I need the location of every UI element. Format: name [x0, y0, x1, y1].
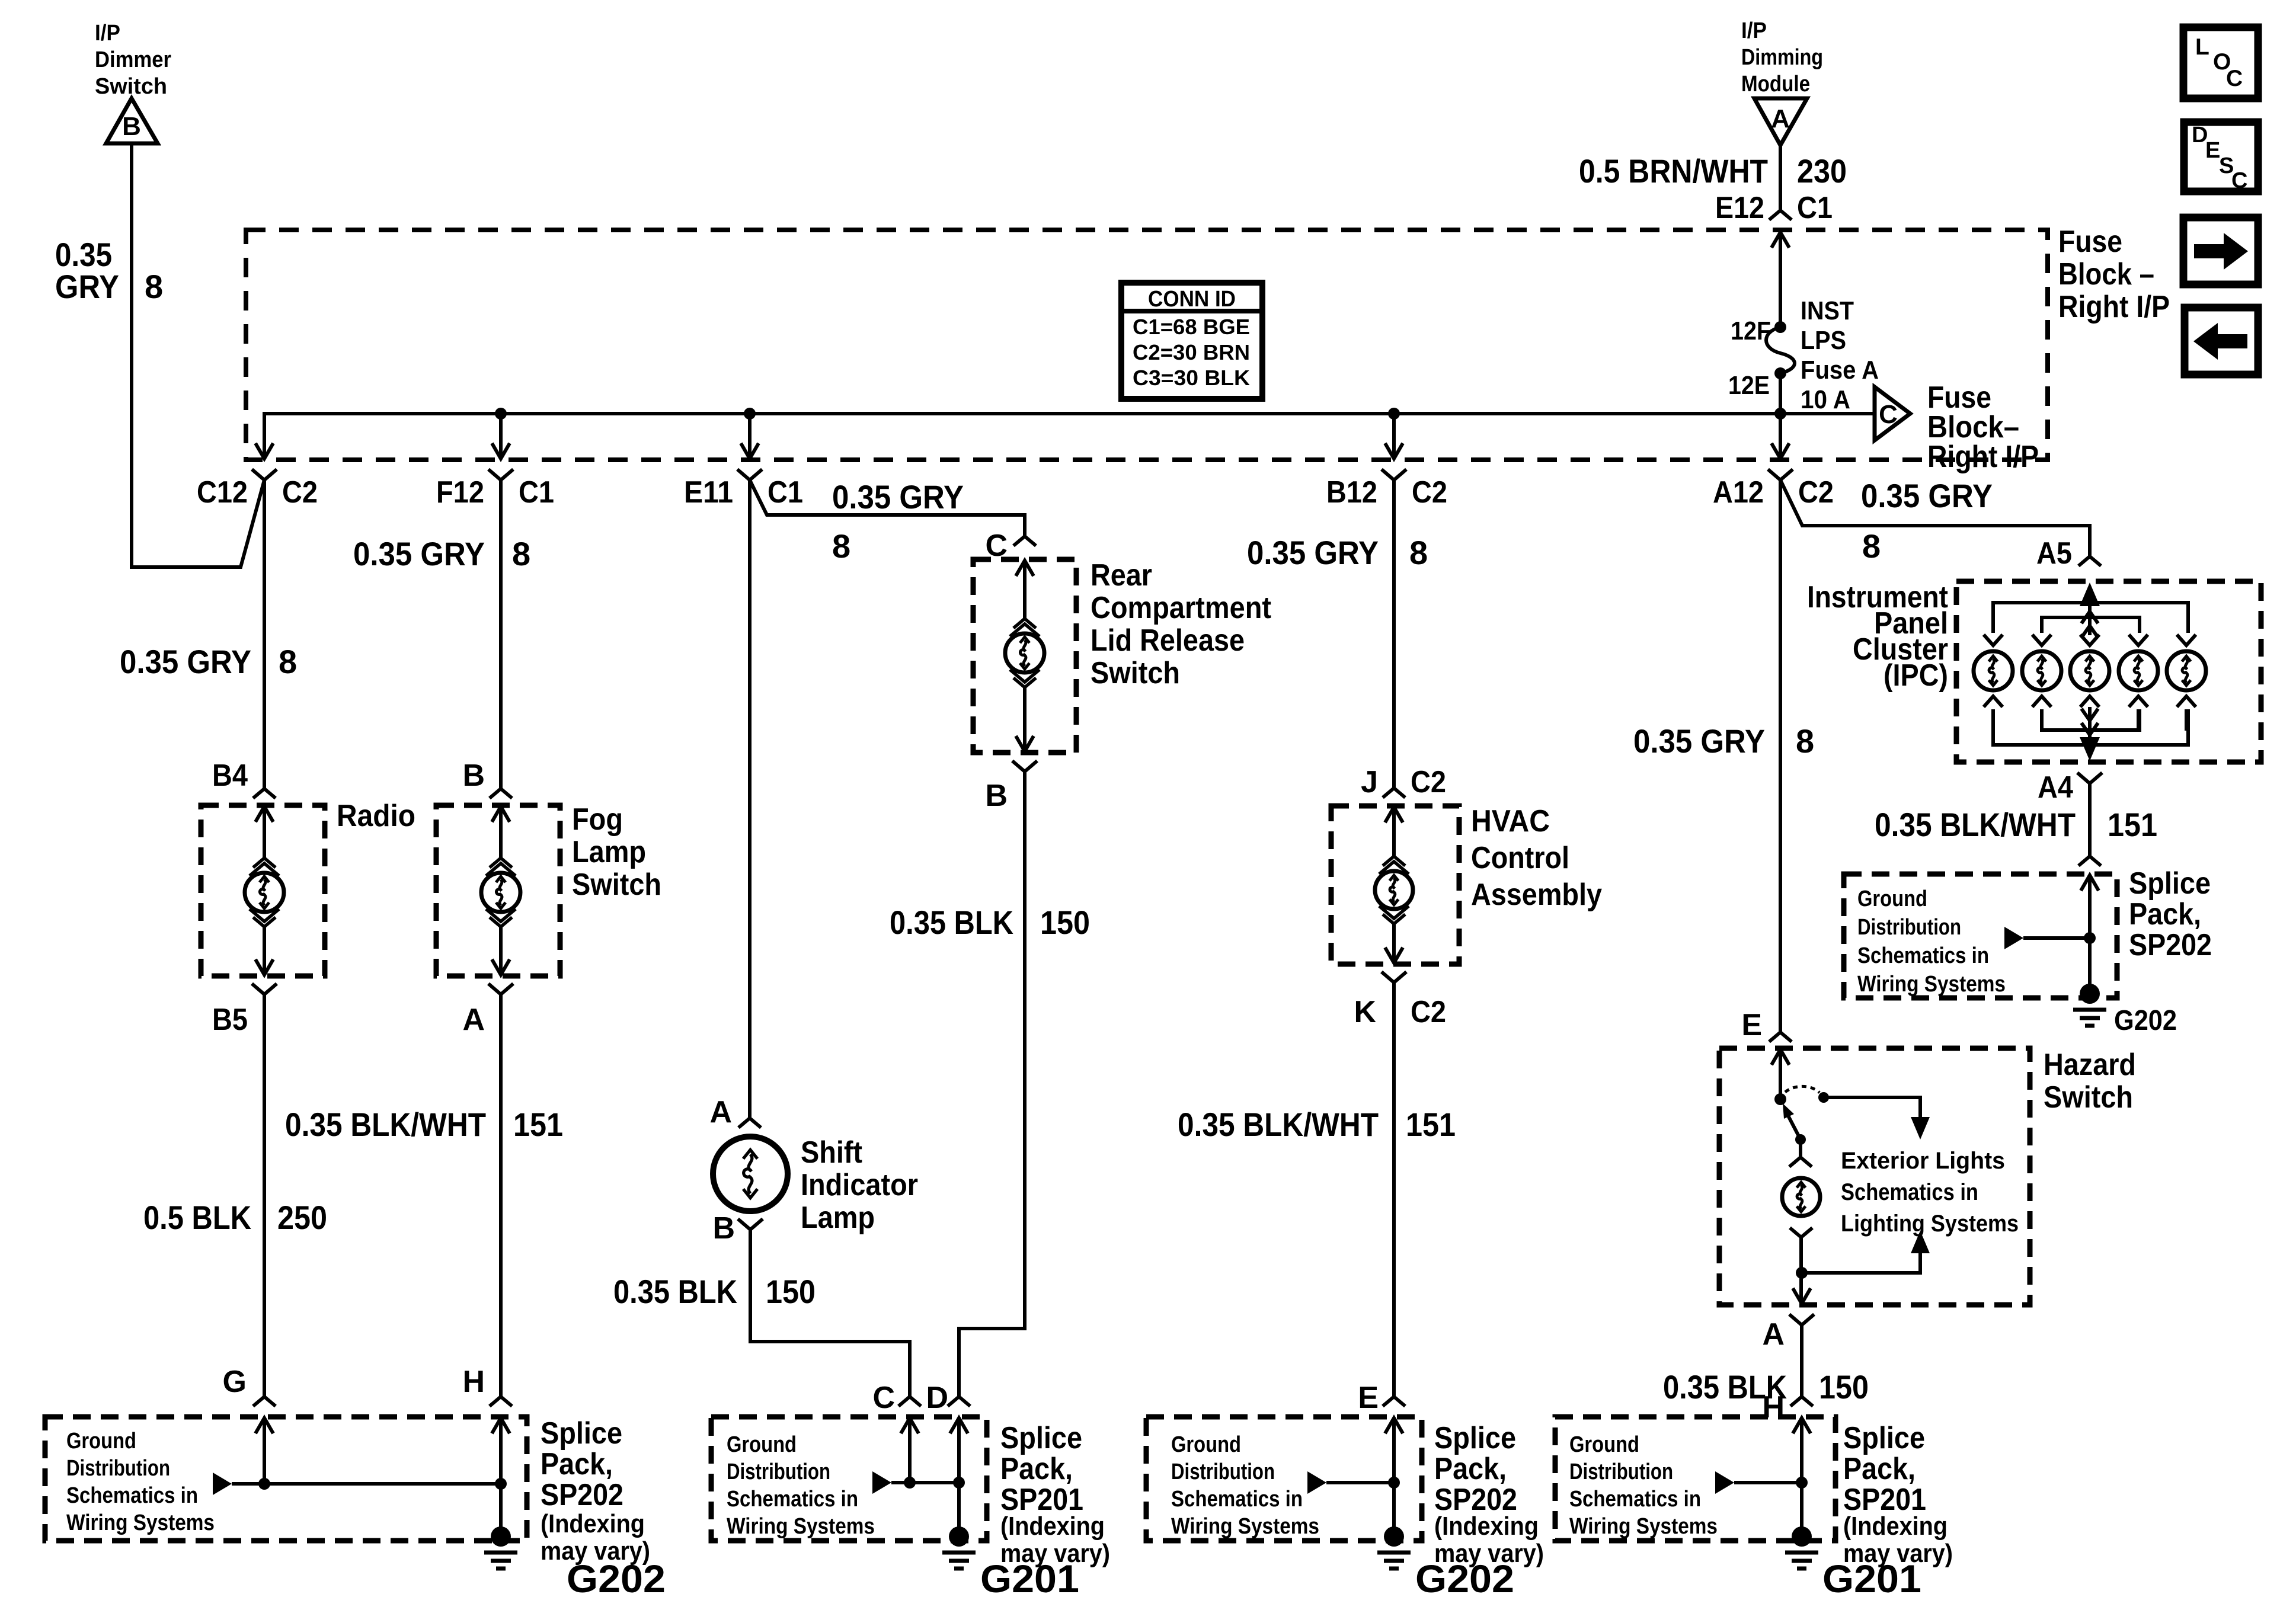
- fuse block dashed border (Fuse Block - Right I/P): [246, 230, 2048, 460]
- svg-text:E11: E11: [684, 475, 733, 510]
- svg-text:8: 8: [279, 643, 297, 680]
- svg-text:Fuse: Fuse: [2058, 225, 2122, 259]
- IPC top inner rail: [2042, 617, 2140, 633]
- connector chevron A4: [2077, 773, 2102, 783]
- label B (rear lid): [985, 779, 1008, 813]
- connector chevron C (splice SP201): [898, 1397, 921, 1406]
- connector E11 of C1 (fuse block exit to shift lamp chain): [684, 443, 803, 510]
- svg-text:(Indexing: (Indexing: [541, 1509, 645, 1538]
- svg-text:C: C: [1879, 400, 1898, 429]
- IPC lamp 2 bottom chevron: [2032, 696, 2051, 707]
- connector B12 of C2 (fuse block exit to HVAC chain): [1326, 443, 1447, 510]
- svg-text:B: B: [122, 112, 141, 141]
- svg-text:151: 151: [513, 1106, 563, 1143]
- wire rear lid B down to splice D: [959, 772, 1025, 1397]
- svg-text:0.35 BLK/WHT: 0.35 BLK/WHT: [1178, 1106, 1379, 1143]
- label 12E: [1728, 371, 1770, 400]
- wire C12 to radio B4: [263, 480, 266, 789]
- splice box 2 feed triangle: [872, 1471, 891, 1494]
- svg-text:Shift: Shift: [801, 1135, 862, 1170]
- svg-text:CONN ID: CONN ID: [1148, 287, 1236, 312]
- connector chevron G: [253, 1397, 276, 1406]
- IPC top outer rail: [1993, 603, 2188, 633]
- connector chevron B4: [253, 789, 276, 798]
- ground G202 (box 3): [1377, 1526, 1411, 1569]
- svg-text:(Indexing: (Indexing: [1434, 1512, 1539, 1541]
- svg-text:Ground: Ground: [1171, 1432, 1241, 1457]
- connector chevron E (hazard): [1769, 1032, 1792, 1042]
- label 0.35 GRY 8 (dimmer wire): [55, 236, 163, 305]
- IPC collect bold arrow down with barbs: [2080, 707, 2100, 761]
- svg-text:150: 150: [766, 1273, 816, 1310]
- radio lamp bottom connector pair: [250, 909, 279, 927]
- hazard junction dot: [1796, 1267, 1808, 1279]
- ground G202 (box 1): [484, 1526, 517, 1569]
- svg-text:Pack,: Pack,: [541, 1447, 613, 1481]
- off-page connector triangle B (I/P Dimmer Switch): [106, 98, 158, 143]
- connector chevron B5: [252, 984, 277, 994]
- label Splice Pack SP202 (box 3): [1434, 1421, 1544, 1568]
- wire hazard lamp down: [1799, 1237, 1803, 1304]
- wire I/P dimmer switch B down and splice to C12: [132, 143, 264, 567]
- drop wire B12: [1392, 414, 1396, 457]
- svg-text:Assembly: Assembly: [1471, 878, 1602, 912]
- svg-text:Wiring Systems: Wiring Systems: [727, 1514, 875, 1539]
- svg-text:Schematics in: Schematics in: [1857, 943, 1989, 968]
- svg-text:0.35 GRY: 0.35 GRY: [1247, 534, 1379, 571]
- hazard lamp bottom chevron: [1790, 1228, 1812, 1237]
- label Splice Pack SP202 (box 1): [541, 1416, 650, 1566]
- label A (fog): [462, 1003, 485, 1037]
- IPC illumination lamp 2: [2022, 651, 2061, 690]
- svg-text:Right I/P: Right I/P: [1927, 440, 2039, 474]
- svg-text:E: E: [1358, 1381, 1379, 1415]
- svg-text:C: C: [872, 1381, 895, 1415]
- svg-text:Lighting Systems: Lighting Systems: [1841, 1211, 2019, 1237]
- connector chevron B (shift lamp): [738, 1219, 763, 1230]
- svg-text:Switch: Switch: [2044, 1080, 2133, 1115]
- svg-text:A: A: [709, 1095, 732, 1129]
- svg-text:A12: A12: [1713, 475, 1764, 510]
- off-page connector triangle A (I/P Dimming Module): [1754, 98, 1807, 145]
- svg-text:C2: C2: [1412, 475, 1447, 510]
- splice box 2 entry arrow D: [950, 1418, 968, 1483]
- HVAC internal wire bottom with arrow: [1385, 924, 1403, 963]
- svg-text:SP202: SP202: [541, 1478, 623, 1512]
- drop wire A12: [1779, 414, 1782, 457]
- svg-text:C: C: [2226, 66, 2243, 91]
- label Splice Pack SP201 (box 2): [1000, 1421, 1110, 1568]
- label B (fog): [462, 758, 485, 793]
- IPC lamp 2 top chevron: [2032, 635, 2051, 645]
- IPC lamp 5 top chevron: [2177, 635, 2196, 645]
- label C (splice SP201): [872, 1381, 895, 1415]
- bus junction dot at fuse column: [1774, 408, 1786, 420]
- connector chevron A (shift lamp): [738, 1118, 761, 1128]
- label 0.35 BLK/WHT 151 (fog): [285, 1106, 563, 1143]
- hazard exit arrow at box bottom: [1793, 1288, 1811, 1304]
- svg-text:Switch: Switch: [1091, 656, 1180, 690]
- label 8 (IPC feed): [1862, 527, 1881, 565]
- IPC lamp 5 bottom stub: [2185, 709, 2188, 731]
- radio internal wire top with arrow: [255, 806, 273, 858]
- IPC lamp 3 bottom stub: [2088, 709, 2092, 731]
- svg-text:C1: C1: [519, 475, 554, 510]
- HVAC internal wire top with arrow: [1385, 807, 1403, 856]
- splice box 4 bus wire: [1734, 1481, 1802, 1484]
- HVAC illumination lamp: [1375, 871, 1413, 909]
- hazard lamp top chevron: [1789, 1140, 1812, 1167]
- hazard switch second pole dot: [1818, 1092, 1829, 1103]
- label C (rear lid): [985, 529, 1008, 563]
- label Radio: [337, 799, 415, 833]
- hazard switch blade with arrow: [1783, 1103, 1801, 1140]
- label H: [462, 1365, 485, 1399]
- label I/P Dimmer Switch: [95, 21, 171, 99]
- splice box 2 bus wire: [891, 1481, 959, 1484]
- svg-text:Ground: Ground: [1569, 1432, 1639, 1457]
- svg-text:0.35 BLK/WHT: 0.35 BLK/WHT: [285, 1106, 486, 1143]
- label G202 (box 1): [567, 1557, 666, 1601]
- svg-text:Splice: Splice: [1000, 1421, 1082, 1455]
- radio illumination lamp: [245, 873, 284, 912]
- splice box 4 entry arrow H: [1793, 1418, 1811, 1483]
- fuse INST LPS Fuse A element: [1766, 327, 1795, 373]
- svg-text:J: J: [1361, 765, 1378, 799]
- label G201 (box 4): [1822, 1557, 1921, 1601]
- svg-text:A5: A5: [2036, 536, 2072, 571]
- label A5: [2036, 536, 2072, 571]
- connector chevron A (hazard exit): [1789, 1314, 1814, 1325]
- svg-text:Switch: Switch: [95, 74, 167, 99]
- wire fog A to splice H: [499, 994, 503, 1397]
- wire HVAC K to splice E: [1392, 982, 1396, 1397]
- wire radio B5 to splice G: [263, 994, 266, 1397]
- label Hazard Switch: [2044, 1048, 2136, 1115]
- Instrument Panel Cluster dashed box: [1956, 581, 2261, 762]
- svg-text:0.35 GRY: 0.35 GRY: [1861, 477, 1993, 514]
- IPC lamp 4 top chevron: [2129, 635, 2148, 645]
- splice box 5 junction dot: [2084, 932, 2096, 944]
- svg-text:(Indexing: (Indexing: [1843, 1512, 1948, 1541]
- fog internal wire top with arrow: [492, 806, 510, 858]
- IPC lamp 4 bottom chevron: [2129, 696, 2148, 707]
- fuse 12E terminal dot: [1774, 367, 1786, 379]
- IPC lamp 5 bottom chevron: [2177, 696, 2196, 707]
- label Exterior Lights Schematics in Lighting Systems: [1841, 1148, 2019, 1237]
- svg-text:H: H: [462, 1365, 485, 1399]
- label 0.35 BLK/WHT 151 (HVAC): [1178, 1106, 1456, 1143]
- IPC illumination lamp 1: [1974, 651, 2013, 690]
- IPC lamp 1 bottom chevron: [1984, 696, 2003, 707]
- label Fog Lamp Switch: [572, 802, 661, 902]
- svg-text:Compartment: Compartment: [1091, 591, 1271, 625]
- splice box 1 junction dot H: [495, 1478, 507, 1490]
- label 0.35 BLK/WHT 151 (IPC): [1875, 806, 2157, 843]
- label 0.35 GRY 8 (hazard feed): [1633, 722, 1814, 760]
- svg-text:SP202: SP202: [2129, 928, 2212, 962]
- Rear Compartment Lid Release Switch dashed box: [973, 559, 1076, 753]
- fog lamp top connector pair: [486, 858, 516, 876]
- svg-text:may vary): may vary): [1434, 1539, 1544, 1568]
- svg-text:12E: 12E: [1728, 371, 1770, 400]
- svg-text:may vary): may vary): [541, 1537, 650, 1566]
- label Fuse Block - Right I/P (at triangle C): [1927, 380, 2039, 474]
- label 0.35 GRY 8 (radio feed): [120, 643, 297, 680]
- label 0.35 BLK 150 (rear lid): [890, 904, 1090, 941]
- label 0.5 BRN/WHT 230: [1579, 152, 1847, 190]
- svg-text:Distribution: Distribution: [66, 1456, 170, 1481]
- label G202 (box 3): [1415, 1557, 1514, 1601]
- CONN ID table: [1121, 283, 1262, 399]
- svg-text:Ground: Ground: [66, 1429, 136, 1454]
- svg-text:(Indexing: (Indexing: [1000, 1512, 1105, 1541]
- svg-text:Lamp: Lamp: [801, 1201, 875, 1235]
- svg-text:C1: C1: [1797, 191, 1833, 225]
- Ground Distribution splice box 3 (SP202 middle): [1146, 1417, 1422, 1541]
- label A4: [2038, 770, 2073, 805]
- svg-text:C2: C2: [1411, 765, 1446, 799]
- svg-text:Indicator: Indicator: [801, 1168, 918, 1202]
- svg-text:B12: B12: [1326, 475, 1377, 510]
- arrow entering fuse block top: [1771, 232, 1789, 327]
- HVAC Control Assembly dashed box: [1331, 806, 1459, 964]
- connector chevron J: [1383, 788, 1405, 798]
- connector chevron H (splice right): [1790, 1397, 1813, 1406]
- svg-text:Dimming: Dimming: [1741, 45, 1823, 70]
- svg-text:151: 151: [2108, 806, 2157, 843]
- svg-text:8: 8: [1796, 722, 1814, 760]
- drop wire F12: [499, 414, 503, 457]
- label Ground Distribution Schematics in Wiring Systems (box 1): [66, 1429, 215, 1535]
- shift indicator lamp: [713, 1137, 788, 1211]
- svg-text:0.35 GRY: 0.35 GRY: [120, 643, 251, 680]
- svg-text:Module: Module: [1741, 72, 1810, 97]
- svg-text:Rear: Rear: [1091, 558, 1152, 593]
- IPC illumination lamp 5: [2167, 651, 2206, 690]
- wire hazard pole to exterior lights arrow down: [1824, 1097, 1930, 1140]
- svg-text:A: A: [1762, 1317, 1785, 1352]
- label 0.35 BLK 150 (hazard): [1663, 1368, 1869, 1406]
- svg-text:Pack,: Pack,: [1000, 1452, 1073, 1486]
- svg-text:0.35 GRY: 0.35 GRY: [1633, 722, 1765, 760]
- IPC lamp 1 top chevron: [1984, 635, 2003, 645]
- label Instrument Panel Cluster (IPC): [1807, 580, 1948, 693]
- svg-text:LPS: LPS: [1801, 326, 1846, 355]
- splice box 4 feed triangle: [1715, 1471, 1734, 1494]
- label D (splice SP201): [926, 1381, 948, 1415]
- splice box 1 ground wire: [499, 1484, 503, 1529]
- splice box 4 ground wire: [1800, 1483, 1803, 1529]
- rear lid internal wire bottom with arrow: [1016, 687, 1034, 751]
- svg-text:B4: B4: [212, 758, 248, 793]
- svg-text:250: 250: [277, 1199, 327, 1236]
- svg-text:Schematics in: Schematics in: [1569, 1487, 1701, 1512]
- svg-text:Distribution: Distribution: [1569, 1459, 1673, 1484]
- wire shift lamp B down to splice C: [750, 1230, 910, 1397]
- Hazard Switch dashed box: [1719, 1048, 2030, 1305]
- label G: [223, 1365, 247, 1399]
- forward arrow legend box: [2183, 217, 2258, 284]
- wire E11 to shift lamp A: [748, 480, 752, 1118]
- splice box 1 entry arrow G: [255, 1418, 273, 1484]
- connector chevron at SP202 right splice: [2078, 856, 2101, 866]
- svg-text:B: B: [985, 779, 1008, 813]
- svg-text:A4: A4: [2038, 770, 2073, 805]
- Fog Lamp Switch dashed box: [436, 805, 560, 976]
- IPC lamp 2 bottom stub: [2040, 709, 2044, 731]
- svg-text:Schematics in: Schematics in: [66, 1483, 198, 1508]
- IPC lamp 3 top chevron: [2080, 635, 2099, 645]
- svg-text:150: 150: [1040, 904, 1090, 941]
- wire hazard junction to exterior lights arrow up: [1802, 1231, 1930, 1273]
- svg-text:C2: C2: [1798, 475, 1834, 510]
- rear compartment lid release illumination lamp: [1005, 633, 1044, 673]
- splice box 1 feed triangle: [213, 1473, 232, 1495]
- hazard illumination lamp: [1782, 1178, 1820, 1216]
- svg-text:B: B: [462, 758, 485, 793]
- svg-text:K: K: [1354, 995, 1376, 1029]
- connector chevron at E12/C1 fuse block entry: [1769, 210, 1792, 220]
- svg-text:Schematics in: Schematics in: [727, 1487, 858, 1512]
- splice box 1 entry arrow H: [492, 1418, 510, 1484]
- svg-text:(IPC): (IPC): [1884, 658, 1948, 693]
- connector chevron C (rear lid): [1013, 536, 1036, 546]
- svg-text:8: 8: [832, 527, 850, 565]
- ground G202 (box 5): [2073, 984, 2106, 1026]
- ground G201 (box 2): [942, 1526, 976, 1569]
- Ground Distribution splice box 2 (SP201): [711, 1417, 987, 1541]
- label A (hazard exit): [1762, 1317, 1785, 1352]
- connector C12 of C2 (fuse block exit to radio chain): [197, 443, 318, 510]
- splice box 2 ground wire: [957, 1483, 961, 1529]
- svg-text:C3=30 BLK: C3=30 BLK: [1133, 366, 1250, 390]
- svg-text:8: 8: [145, 268, 163, 305]
- svg-text:Schematics in: Schematics in: [1171, 1487, 1303, 1512]
- label E12 C1: [1715, 191, 1833, 225]
- svg-text:0.35 BLK/WHT: 0.35 BLK/WHT: [1875, 806, 2076, 843]
- wire A12 branch to IPC A5: [1780, 480, 2090, 556]
- IPC lamp 3 bottom chevron: [2080, 696, 2099, 707]
- label 8 (E11 branch): [832, 527, 850, 565]
- svg-text:E12: E12: [1715, 191, 1764, 225]
- svg-text:C2=30 BRN: C2=30 BRN: [1133, 340, 1250, 364]
- label J C2: [1361, 765, 1446, 799]
- svg-text:Lid Release: Lid Release: [1091, 623, 1245, 658]
- connector F12 of C1 (fuse block exit to fog lamp chain): [436, 443, 554, 510]
- label 0.35 GRY (IPC feed): [1861, 477, 1993, 514]
- svg-text:Lamp: Lamp: [572, 835, 646, 869]
- label B4: [212, 758, 248, 793]
- HVAC lamp bottom connector pair: [1379, 906, 1409, 924]
- label G201 (box 2): [980, 1557, 1079, 1601]
- wire hazard A to splice H: [1800, 1325, 1803, 1397]
- splice box 5 bus wire: [2023, 936, 2090, 940]
- splice box 2 junction dot D: [953, 1477, 965, 1489]
- hazard blade end dot: [1795, 1134, 1806, 1145]
- label Splice Pack SP201 (box 4): [1843, 1421, 1953, 1568]
- label H (splice SP201 right): [1762, 1390, 1785, 1425]
- svg-text:Wiring Systems: Wiring Systems: [1171, 1514, 1319, 1539]
- svg-text:C2: C2: [1411, 995, 1446, 1029]
- svg-text:Control: Control: [1471, 841, 1569, 875]
- svg-text:Hazard: Hazard: [2044, 1048, 2136, 1082]
- svg-text:Right I/P: Right I/P: [2058, 290, 2170, 324]
- splice box 3 junction dot E: [1388, 1477, 1400, 1489]
- fog internal wire bottom with arrow: [492, 927, 510, 975]
- wire B12 to HVAC J: [1392, 480, 1396, 788]
- splice box 4 junction dot H: [1796, 1477, 1808, 1489]
- svg-text:GRY: GRY: [55, 268, 119, 305]
- svg-text:Wiring Systems: Wiring Systems: [1569, 1514, 1718, 1539]
- label E (splice): [1358, 1381, 1379, 1415]
- svg-text:Distribution: Distribution: [1171, 1459, 1275, 1484]
- svg-text:C2: C2: [282, 475, 318, 510]
- Ground Distribution splice box 4 (SP201 right): [1555, 1417, 1835, 1541]
- rear lid internal wire top with arrow: [1016, 561, 1034, 619]
- fuse 12F terminal dot: [1774, 321, 1786, 333]
- connector chevron A5: [2078, 556, 2101, 566]
- HVAC lamp top connector pair: [1379, 856, 1409, 874]
- splice box 3 ground wire: [1392, 1483, 1396, 1529]
- fog lamp switch illumination lamp: [481, 873, 520, 912]
- hazard switch dashed throw arc: [1785, 1086, 1819, 1093]
- label Shift Indicator Lamp: [801, 1135, 918, 1235]
- radio internal wire bottom with arrow: [255, 927, 273, 975]
- wire bus to triangle C: [1780, 412, 1875, 415]
- svg-text:G202: G202: [2114, 1005, 2177, 1036]
- svg-text:Distribution: Distribution: [1857, 915, 1961, 940]
- svg-text:151: 151: [1406, 1106, 1456, 1143]
- label Ground Distribution Schematics in Wiring Systems (box 5): [1857, 886, 2006, 997]
- hazard switch pivot dot: [1774, 1093, 1786, 1105]
- splice box 3 bus wire: [1326, 1481, 1394, 1484]
- svg-text:B: B: [712, 1211, 735, 1246]
- label 0.5 BLK 250: [143, 1199, 327, 1236]
- ground G201 (box 4): [1785, 1526, 1818, 1569]
- label B (shift lamp): [712, 1211, 735, 1246]
- splice box 2 junction dot C: [904, 1477, 916, 1489]
- svg-text:Splice: Splice: [1843, 1421, 1925, 1455]
- connector chevron B (fog): [490, 789, 512, 798]
- svg-text:E: E: [1741, 1008, 1762, 1042]
- svg-text:Distribution: Distribution: [727, 1459, 830, 1484]
- svg-text:Exterior Lights: Exterior Lights: [1841, 1148, 2005, 1174]
- connector chevron K: [1382, 972, 1406, 982]
- IPC lamp 1 bottom stub: [1991, 709, 1995, 731]
- label Rear Compartment Lid Release Switch: [1091, 558, 1271, 690]
- label Ground Distribution Schematics in Wiring Systems (box 3): [1171, 1432, 1319, 1539]
- svg-text:0.5 BRN/WHT: 0.5 BRN/WHT: [1579, 152, 1768, 190]
- wire E11 branch to rear compartment lid release: [750, 480, 1025, 536]
- Ground Distribution splice box 5 (SP202 right middle): [1844, 874, 2117, 998]
- off-page triangle C to Fuse Block - Right I/P: [1875, 387, 1910, 440]
- wire from I/P Dimming Module A to fuse block: [1779, 145, 1782, 210]
- IPC illumination lamp 3: [2070, 651, 2109, 690]
- rear lid lamp top connector pair: [1010, 619, 1040, 636]
- svg-text:Radio: Radio: [337, 799, 415, 833]
- bus wire from fuse inside fuse block: [264, 414, 1780, 457]
- svg-text:0.5 BLK: 0.5 BLK: [143, 1199, 251, 1236]
- svg-text:E: E: [2205, 138, 2220, 163]
- svg-text:8: 8: [1862, 527, 1881, 565]
- svg-text:G: G: [223, 1365, 247, 1399]
- label HVAC Control Assembly: [1471, 804, 1602, 912]
- svg-text:Block –: Block –: [2058, 257, 2154, 292]
- splice box 3 feed triangle: [1307, 1471, 1326, 1494]
- splice box 5 feed triangle: [2004, 927, 2023, 949]
- svg-text:HVAC: HVAC: [1471, 804, 1550, 838]
